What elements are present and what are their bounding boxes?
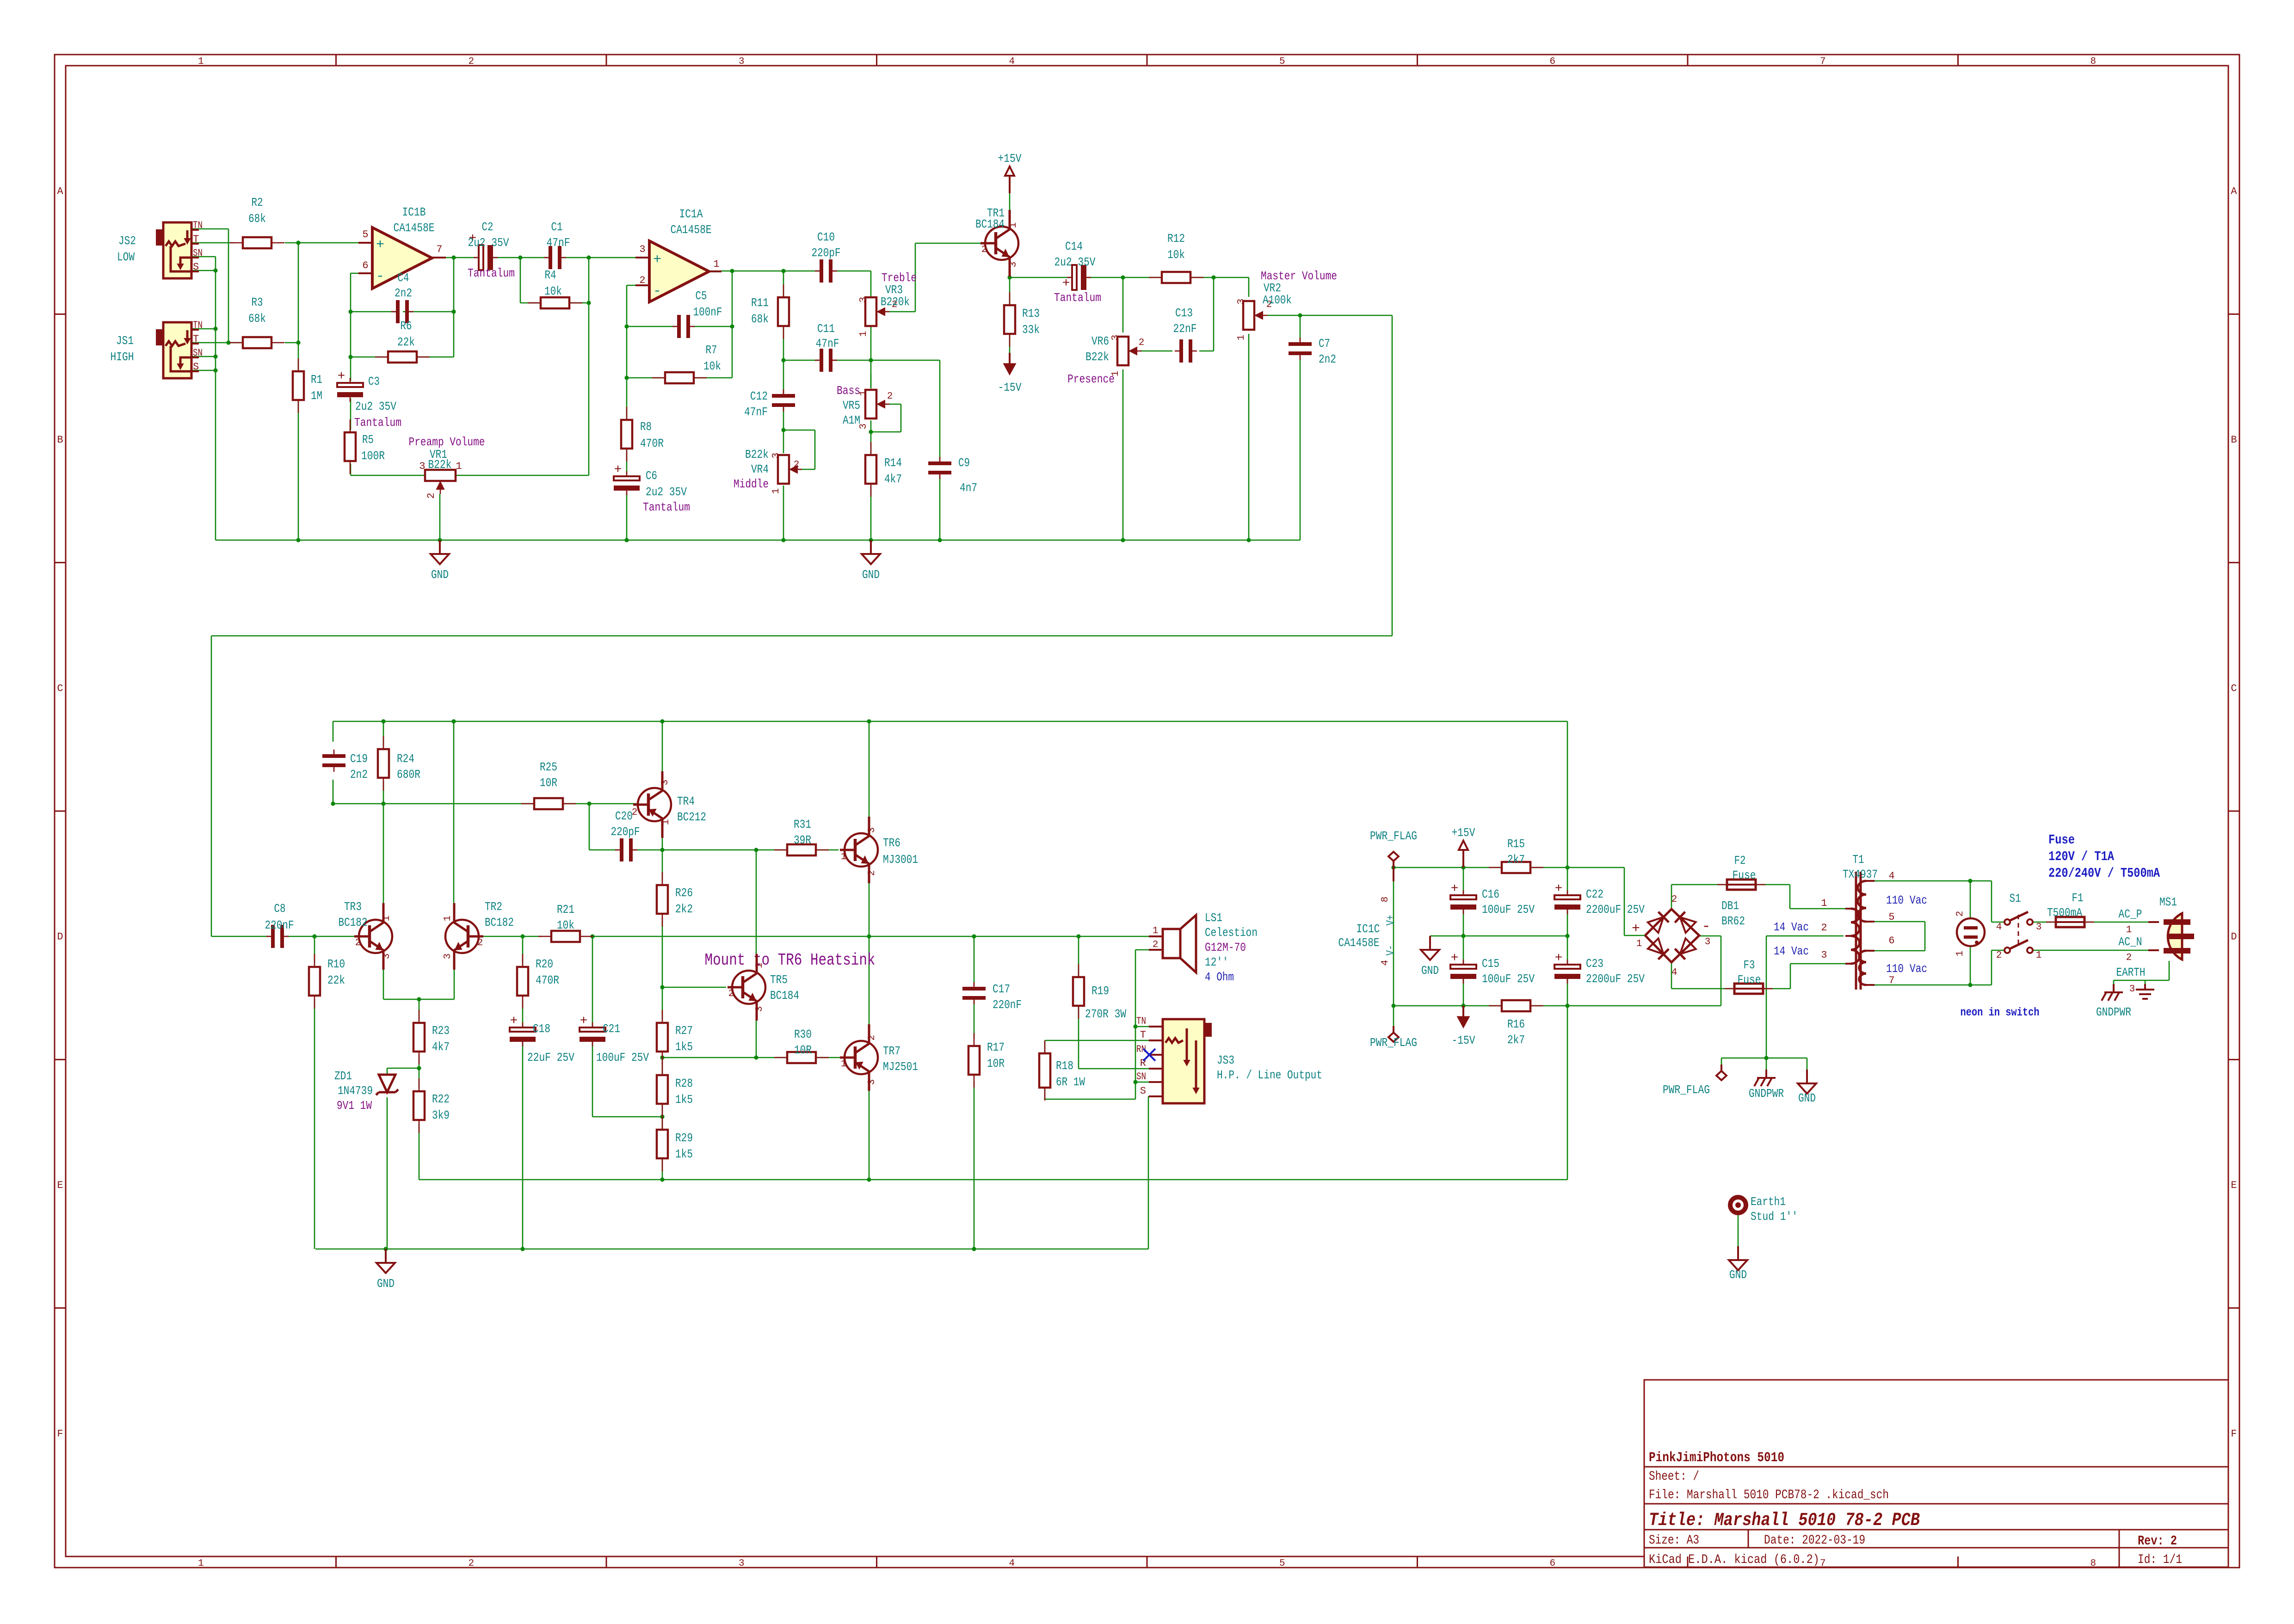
svg-text:+: + [1451,951,1459,966]
svg-text:2: 2 [1139,338,1145,348]
svg-text:3: 3 [1110,335,1121,341]
svg-text:C: C [57,683,63,694]
svg-text:1: 1 [841,852,847,862]
svg-text:GND: GND [1421,964,1439,978]
svg-text:2u2 35V: 2u2 35V [468,236,509,250]
svg-text:3: 3 [660,780,671,786]
svg-text:+: + [376,237,384,253]
svg-text:22k: 22k [397,335,415,349]
svg-text:Stud 1'': Stud 1'' [1751,1210,1798,1224]
svg-text:2: 2 [1821,922,1827,934]
svg-text:2: 2 [1955,911,1966,917]
svg-text:2u2 35V: 2u2 35V [355,400,396,413]
svg-text:10k: 10k [703,359,721,373]
svg-text:VR4: VR4 [751,462,769,476]
svg-text:1k5: 1k5 [675,1147,693,1161]
svg-text:12'': 12'' [1205,955,1228,969]
svg-text:SN: SN [193,347,203,359]
svg-text:10k: 10k [557,918,574,932]
svg-text:-: - [376,269,384,284]
svg-text:5: 5 [1279,1558,1285,1569]
svg-text:R28: R28 [675,1077,693,1090]
svg-text:KiCad E.D.A. kicad (6.0.2): KiCad E.D.A. kicad (6.0.2) [1649,1553,1819,1567]
svg-text:100uF 25V: 100uF 25V [1482,972,1535,986]
svg-text:3: 3 [2036,922,2042,933]
svg-text:VR5: VR5 [843,399,860,412]
svg-text:3: 3 [858,297,869,303]
svg-text:G12M-70: G12M-70 [1205,941,1246,954]
svg-text:1k5: 1k5 [675,1040,693,1054]
svg-text:F: F [2231,1428,2237,1439]
svg-text:R7: R7 [706,343,717,357]
svg-text:A: A [2231,186,2237,197]
svg-text:C2: C2 [482,220,493,234]
svg-text:Fuse: Fuse [1738,973,1761,987]
svg-text:3: 3 [867,827,877,833]
svg-text:E: E [2231,1180,2237,1191]
svg-text:1: 1 [1821,898,1827,909]
svg-text:+: + [1451,882,1459,896]
svg-text:100uF 25V: 100uF 25V [1482,903,1535,917]
svg-text:+: + [338,369,345,384]
svg-text:1: 1 [2126,925,2132,935]
svg-text:Fuse: Fuse [2048,832,2075,848]
svg-text:Presence: Presence [1067,372,1115,386]
svg-text:14 Vac: 14 Vac [1774,944,1809,958]
svg-text:-15V: -15V [1452,1033,1475,1047]
svg-text:TN: TN [1136,1015,1146,1027]
svg-text:47nF: 47nF [547,236,570,250]
svg-text:22k: 22k [327,973,345,987]
svg-text:2: 2 [477,938,483,948]
svg-text:AC_N: AC_N [2119,935,2142,949]
svg-text:R30: R30 [794,1027,812,1041]
svg-text:C: C [2231,683,2237,694]
svg-text:2: 2 [1996,950,2002,961]
svg-text:IC1C: IC1C [1357,922,1380,936]
svg-text:C22: C22 [1586,887,1603,901]
svg-text:Rev: 2: Rev: 2 [2138,1533,2177,1549]
svg-text:H.P. / Line Output: H.P. / Line Output [1217,1068,1322,1082]
svg-text:2: 2 [867,870,877,876]
svg-text:DB1: DB1 [1721,899,1739,913]
svg-text:B22k: B22k [745,448,769,461]
svg-text:39R: 39R [794,833,811,847]
svg-text:10R: 10R [794,1043,812,1057]
svg-text:8: 8 [1380,897,1391,903]
svg-text:Id: 1/1: Id: 1/1 [2138,1553,2182,1567]
svg-text:A100k: A100k [1263,293,1292,307]
svg-text:R20: R20 [536,957,553,971]
svg-text:TR2: TR2 [485,900,502,914]
svg-text:IC1A: IC1A [679,207,703,221]
svg-text:Mount to TR6 Heatsink: Mount to TR6 Heatsink [705,951,876,970]
svg-text:R1: R1 [311,373,322,387]
svg-text:1N4739: 1N4739 [338,1084,373,1098]
svg-text:5: 5 [1888,911,1894,923]
svg-text:9V1 1W: 9V1 1W [337,1099,372,1113]
svg-text:2: 2 [1671,894,1677,905]
svg-text:4n7: 4n7 [960,481,977,495]
svg-text:PinkJimiPhotons 5010: PinkJimiPhotons 5010 [1649,1450,1784,1466]
svg-text:GND: GND [1729,1268,1747,1282]
svg-text:R18: R18 [1056,1059,1073,1073]
svg-text:Tantalum: Tantalum [643,500,690,514]
svg-text:8: 8 [2090,56,2096,67]
svg-text:TR6: TR6 [883,836,900,850]
svg-text:14 Vac: 14 Vac [1774,920,1809,934]
svg-text:EARTH: EARTH [2116,966,2146,979]
svg-text:TN: TN [193,220,203,231]
svg-text:R16: R16 [1507,1017,1525,1031]
svg-text:68k: 68k [751,312,769,326]
svg-text:C1: C1 [551,220,563,234]
svg-text:+: + [1062,277,1070,291]
svg-text:6: 6 [1549,1558,1555,1569]
svg-text:100R: 100R [361,449,385,463]
svg-text:2: 2 [468,1558,474,1569]
svg-text:3: 3 [1705,937,1711,947]
svg-text:S: S [193,361,199,373]
svg-text:7: 7 [436,244,442,255]
svg-text:+: + [1632,921,1640,937]
svg-text:E: E [57,1180,63,1191]
svg-text:110 Vac: 110 Vac [1886,962,1927,976]
svg-text:10k: 10k [544,284,562,298]
svg-text:R6: R6 [401,319,412,333]
svg-text:1: 1 [1008,222,1019,228]
svg-text:R15: R15 [1507,837,1525,851]
svg-text:R25: R25 [540,760,557,774]
svg-text:R31: R31 [794,818,811,831]
svg-text:B22k: B22k [1085,350,1109,364]
svg-text:4: 4 [1009,56,1015,67]
svg-text:D: D [57,931,63,943]
svg-text:2: 2 [425,492,437,498]
svg-text:10R: 10R [540,776,557,790]
svg-text:PWR_FLAG: PWR_FLAG [1370,1036,1417,1050]
svg-text:F2: F2 [1734,854,1746,867]
svg-text:-15V: -15V [998,381,1022,394]
svg-text:+: + [1555,882,1563,896]
svg-text:22nF: 22nF [1173,322,1197,336]
svg-text:C13: C13 [1175,306,1193,320]
svg-text:2200uF 25V: 2200uF 25V [1586,903,1645,917]
svg-text:110 Vac: 110 Vac [1886,893,1927,907]
svg-text:2: 2 [981,245,987,255]
svg-text:C23: C23 [1586,957,1603,971]
svg-text:1: 1 [1955,951,1966,957]
svg-text:Tantalum: Tantalum [354,416,401,430]
svg-text:1: 1 [198,1558,204,1569]
svg-text:4: 4 [1009,1558,1015,1569]
svg-text:1: 1 [858,331,869,337]
svg-text:1: 1 [771,488,782,494]
svg-text:C15: C15 [1482,957,1499,971]
svg-text:TN: TN [193,320,203,331]
svg-text:22uF 25V: 22uF 25V [527,1051,574,1064]
svg-text:R13: R13 [1022,307,1040,320]
svg-text:AC_P: AC_P [2119,907,2142,921]
svg-text:T1: T1 [1853,853,1864,867]
svg-text:JS2: JS2 [118,234,136,248]
svg-text:+: + [580,1014,588,1028]
svg-text:S: S [1140,1085,1146,1097]
svg-text:R22: R22 [432,1092,450,1106]
svg-text:1: 1 [841,1059,847,1070]
svg-text:2: 2 [794,460,800,470]
svg-text:R3: R3 [252,295,263,309]
svg-text:JS3: JS3 [1217,1053,1234,1067]
svg-text:Celestion: Celestion [1205,926,1258,940]
svg-text:+15V: +15V [998,152,1022,166]
svg-text:R11: R11 [751,296,769,310]
svg-text:C4: C4 [398,271,409,285]
svg-text:C11: C11 [817,322,835,336]
svg-text:IC1B: IC1B [402,205,426,219]
svg-text:6R 1W: 6R 1W [1056,1075,1085,1089]
svg-text:BC212: BC212 [677,810,706,824]
svg-text:2u2 35V: 2u2 35V [1054,255,1096,269]
svg-text:6: 6 [362,260,368,271]
svg-text:2k7: 2k7 [1507,1033,1525,1047]
svg-text:2u2 35V: 2u2 35V [646,485,687,499]
svg-text:C12: C12 [750,389,768,403]
svg-text:C5: C5 [696,289,707,303]
svg-text:R2: R2 [252,196,263,209]
svg-text:4: 4 [1996,922,2002,933]
svg-text:68k: 68k [248,212,266,226]
svg-text:1: 1 [198,56,204,67]
svg-text:Size: A3: Size: A3 [1649,1533,1699,1548]
svg-text:R27: R27 [675,1024,693,1038]
svg-text:GND: GND [377,1277,395,1291]
svg-text:CA1458E: CA1458E [394,221,435,235]
svg-text:F1: F1 [2072,891,2084,905]
svg-text:TX4937: TX4937 [1843,867,1878,881]
svg-text:PWR_FLAG: PWR_FLAG [1663,1083,1710,1097]
svg-text:100uF 25V: 100uF 25V [596,1051,649,1064]
svg-text:SN: SN [193,247,203,259]
svg-text:680R: 680R [397,768,420,781]
svg-text:3: 3 [419,461,425,472]
svg-text:2n2: 2n2 [395,286,412,300]
svg-text:7: 7 [1888,975,1894,986]
svg-text:1: 1 [713,258,719,270]
svg-text:3: 3 [739,1558,745,1569]
svg-text:3: 3 [1236,299,1247,305]
svg-text:C14: C14 [1065,240,1083,253]
svg-text:SN: SN [1136,1071,1146,1083]
svg-text:R29: R29 [675,1131,693,1145]
svg-text:S: S [193,261,199,273]
svg-text:3: 3 [739,56,745,67]
svg-text:BR62: BR62 [1721,914,1745,928]
svg-text:R5: R5 [362,433,374,447]
svg-text:3: 3 [639,244,645,255]
svg-text:GNDPWR: GNDPWR [2096,1005,2131,1019]
svg-text:C16: C16 [1482,887,1499,901]
svg-text:HIGH: HIGH [111,350,134,364]
svg-text:470R: 470R [640,437,664,450]
svg-text:1: 1 [1153,926,1159,936]
svg-text:+: + [1555,951,1563,966]
svg-text:1M: 1M [311,389,322,403]
svg-text:neon in switch: neon in switch [1961,1006,2040,1019]
svg-text:47nF: 47nF [816,337,839,351]
svg-text:1: 1 [443,916,453,922]
svg-text:T: T [193,333,199,345]
svg-text:4 Ohm: 4 Ohm [1205,970,1234,984]
svg-text:-: - [653,283,661,299]
svg-text:+: + [614,463,622,477]
svg-text:1: 1 [456,461,462,472]
svg-text:3: 3 [1008,262,1019,268]
svg-text:GND: GND [431,568,449,582]
svg-text:10k: 10k [1167,248,1185,262]
svg-text:Bass: Bass [837,384,860,398]
svg-text:T500mA: T500mA [2047,906,2082,920]
svg-text:220nF: 220nF [993,998,1022,1012]
svg-text:4: 4 [1671,967,1677,978]
svg-text:1: 1 [1636,939,1642,949]
svg-text:TR5: TR5 [770,973,788,987]
svg-text:-: - [1702,918,1710,935]
svg-text:Earth1: Earth1 [1751,1195,1786,1209]
svg-text:A1M: A1M [843,413,860,427]
svg-text:2: 2 [468,56,474,67]
svg-text:C18: C18 [533,1022,550,1036]
svg-text:File: Marshall 5010 PCB78-2 .k: File: Marshall 5010 PCB78-2 .kicad_sch [1649,1488,1889,1502]
svg-text:VR6: VR6 [1091,334,1109,348]
svg-text:C3: C3 [368,375,380,388]
svg-text:LOW: LOW [117,250,135,264]
svg-text:PWR_FLAG: PWR_FLAG [1370,829,1417,843]
svg-text:GND: GND [1798,1091,1816,1105]
svg-text:3: 3 [771,453,782,459]
svg-text:Title: Marshall 5010 78-2 PCB: Title: Marshall 5010 78-2 PCB [1649,1510,1920,1531]
svg-text:C7: C7 [1319,337,1330,351]
svg-text:220/240V / T500mA: 220/240V / T500mA [2048,866,2160,881]
svg-text:2: 2 [867,1035,877,1041]
svg-text:MS1: MS1 [2159,895,2177,909]
svg-text:220nF: 220nF [265,918,294,932]
svg-text:1: 1 [1236,335,1247,341]
svg-text:4k7: 4k7 [432,1040,450,1054]
svg-text:R10: R10 [327,957,345,971]
svg-text:B220k: B220k [881,295,910,309]
svg-text:R19: R19 [1091,984,1109,998]
svg-text:3k9: 3k9 [432,1108,450,1122]
svg-text:R4: R4 [545,268,556,282]
svg-text:220pF: 220pF [812,246,841,260]
svg-text:A: A [57,186,63,197]
svg-text:4: 4 [1888,870,1894,882]
svg-text:4: 4 [1380,960,1391,966]
svg-text:1: 1 [2036,950,2042,961]
svg-text:TR7: TR7 [883,1044,900,1058]
svg-text:270R 3W: 270R 3W [1085,1007,1126,1021]
svg-text:TR4: TR4 [677,794,695,808]
svg-text:R8: R8 [640,420,652,434]
svg-text:LS1: LS1 [1205,911,1222,925]
svg-text:3: 3 [1821,949,1827,961]
svg-text:V-: V- [1385,945,1397,956]
svg-text:Sheet: /: Sheet: / [1649,1470,1699,1484]
svg-text:2n2: 2n2 [350,768,368,781]
svg-text:JS1: JS1 [116,334,134,348]
svg-text:BC182: BC182 [339,916,368,929]
svg-text:BC182: BC182 [485,916,514,929]
svg-text:B: B [57,434,63,446]
svg-text:2: 2 [728,989,734,999]
svg-text:GND: GND [862,568,880,582]
svg-text:1: 1 [754,963,765,969]
svg-text:1: 1 [661,819,672,825]
svg-text:+15V: +15V [1452,826,1475,840]
svg-text:2: 2 [355,938,361,948]
svg-text:GNDPWR: GNDPWR [1749,1087,1784,1101]
svg-text:Fuse: Fuse [1733,868,1756,882]
svg-text:V+: V+ [1385,915,1397,926]
svg-text:2: 2 [887,391,893,402]
svg-text:3: 3 [754,1006,765,1012]
svg-text:C9: C9 [958,456,970,470]
svg-text:Preamp Volume: Preamp Volume [409,435,485,449]
svg-text:100nF: 100nF [693,305,722,319]
svg-text:R17: R17 [987,1040,1005,1054]
svg-text:5: 5 [1279,56,1285,67]
svg-text:47nF: 47nF [744,405,768,419]
svg-text:470R: 470R [536,973,559,987]
svg-text:B: B [2231,434,2237,446]
svg-text:Middle: Middle [734,477,769,491]
svg-text:+: + [510,1014,518,1028]
svg-text:+: + [653,252,661,268]
svg-text:3: 3 [443,953,453,960]
svg-text:C10: C10 [817,230,835,244]
svg-text:T: T [193,234,199,245]
svg-text:B22k: B22k [428,458,452,472]
svg-text:6: 6 [1549,56,1555,67]
svg-text:10R: 10R [987,1057,1005,1070]
svg-text:2k7: 2k7 [1507,853,1525,867]
svg-text:C20: C20 [615,809,633,823]
svg-text:Tantalum: Tantalum [468,266,515,280]
svg-text:S1: S1 [2010,892,2021,905]
svg-text:TR3: TR3 [344,900,362,914]
svg-text:C21: C21 [603,1022,620,1036]
svg-text:BC184: BC184 [770,989,799,1003]
svg-text:C6: C6 [646,469,657,483]
svg-text:2n2: 2n2 [1319,352,1336,366]
svg-text:3: 3 [867,1079,877,1085]
svg-text:R14: R14 [884,456,902,470]
svg-text:R24: R24 [397,752,414,766]
svg-text:68k: 68k [248,312,266,326]
svg-text:C8: C8 [274,902,286,916]
svg-text:2: 2 [1153,940,1159,950]
svg-text:120V / T1A: 120V / T1A [2048,849,2114,864]
svg-text:1k5: 1k5 [675,1093,693,1107]
svg-text:D: D [2231,931,2237,943]
svg-text:MJ2501: MJ2501 [883,1060,918,1074]
svg-text:CA1458E: CA1458E [671,223,712,237]
svg-text:2200uF 25V: 2200uF 25V [1586,972,1645,986]
svg-text:7: 7 [1820,56,1826,67]
svg-text:MJ3001: MJ3001 [883,853,918,867]
svg-text:C19: C19 [350,752,368,766]
